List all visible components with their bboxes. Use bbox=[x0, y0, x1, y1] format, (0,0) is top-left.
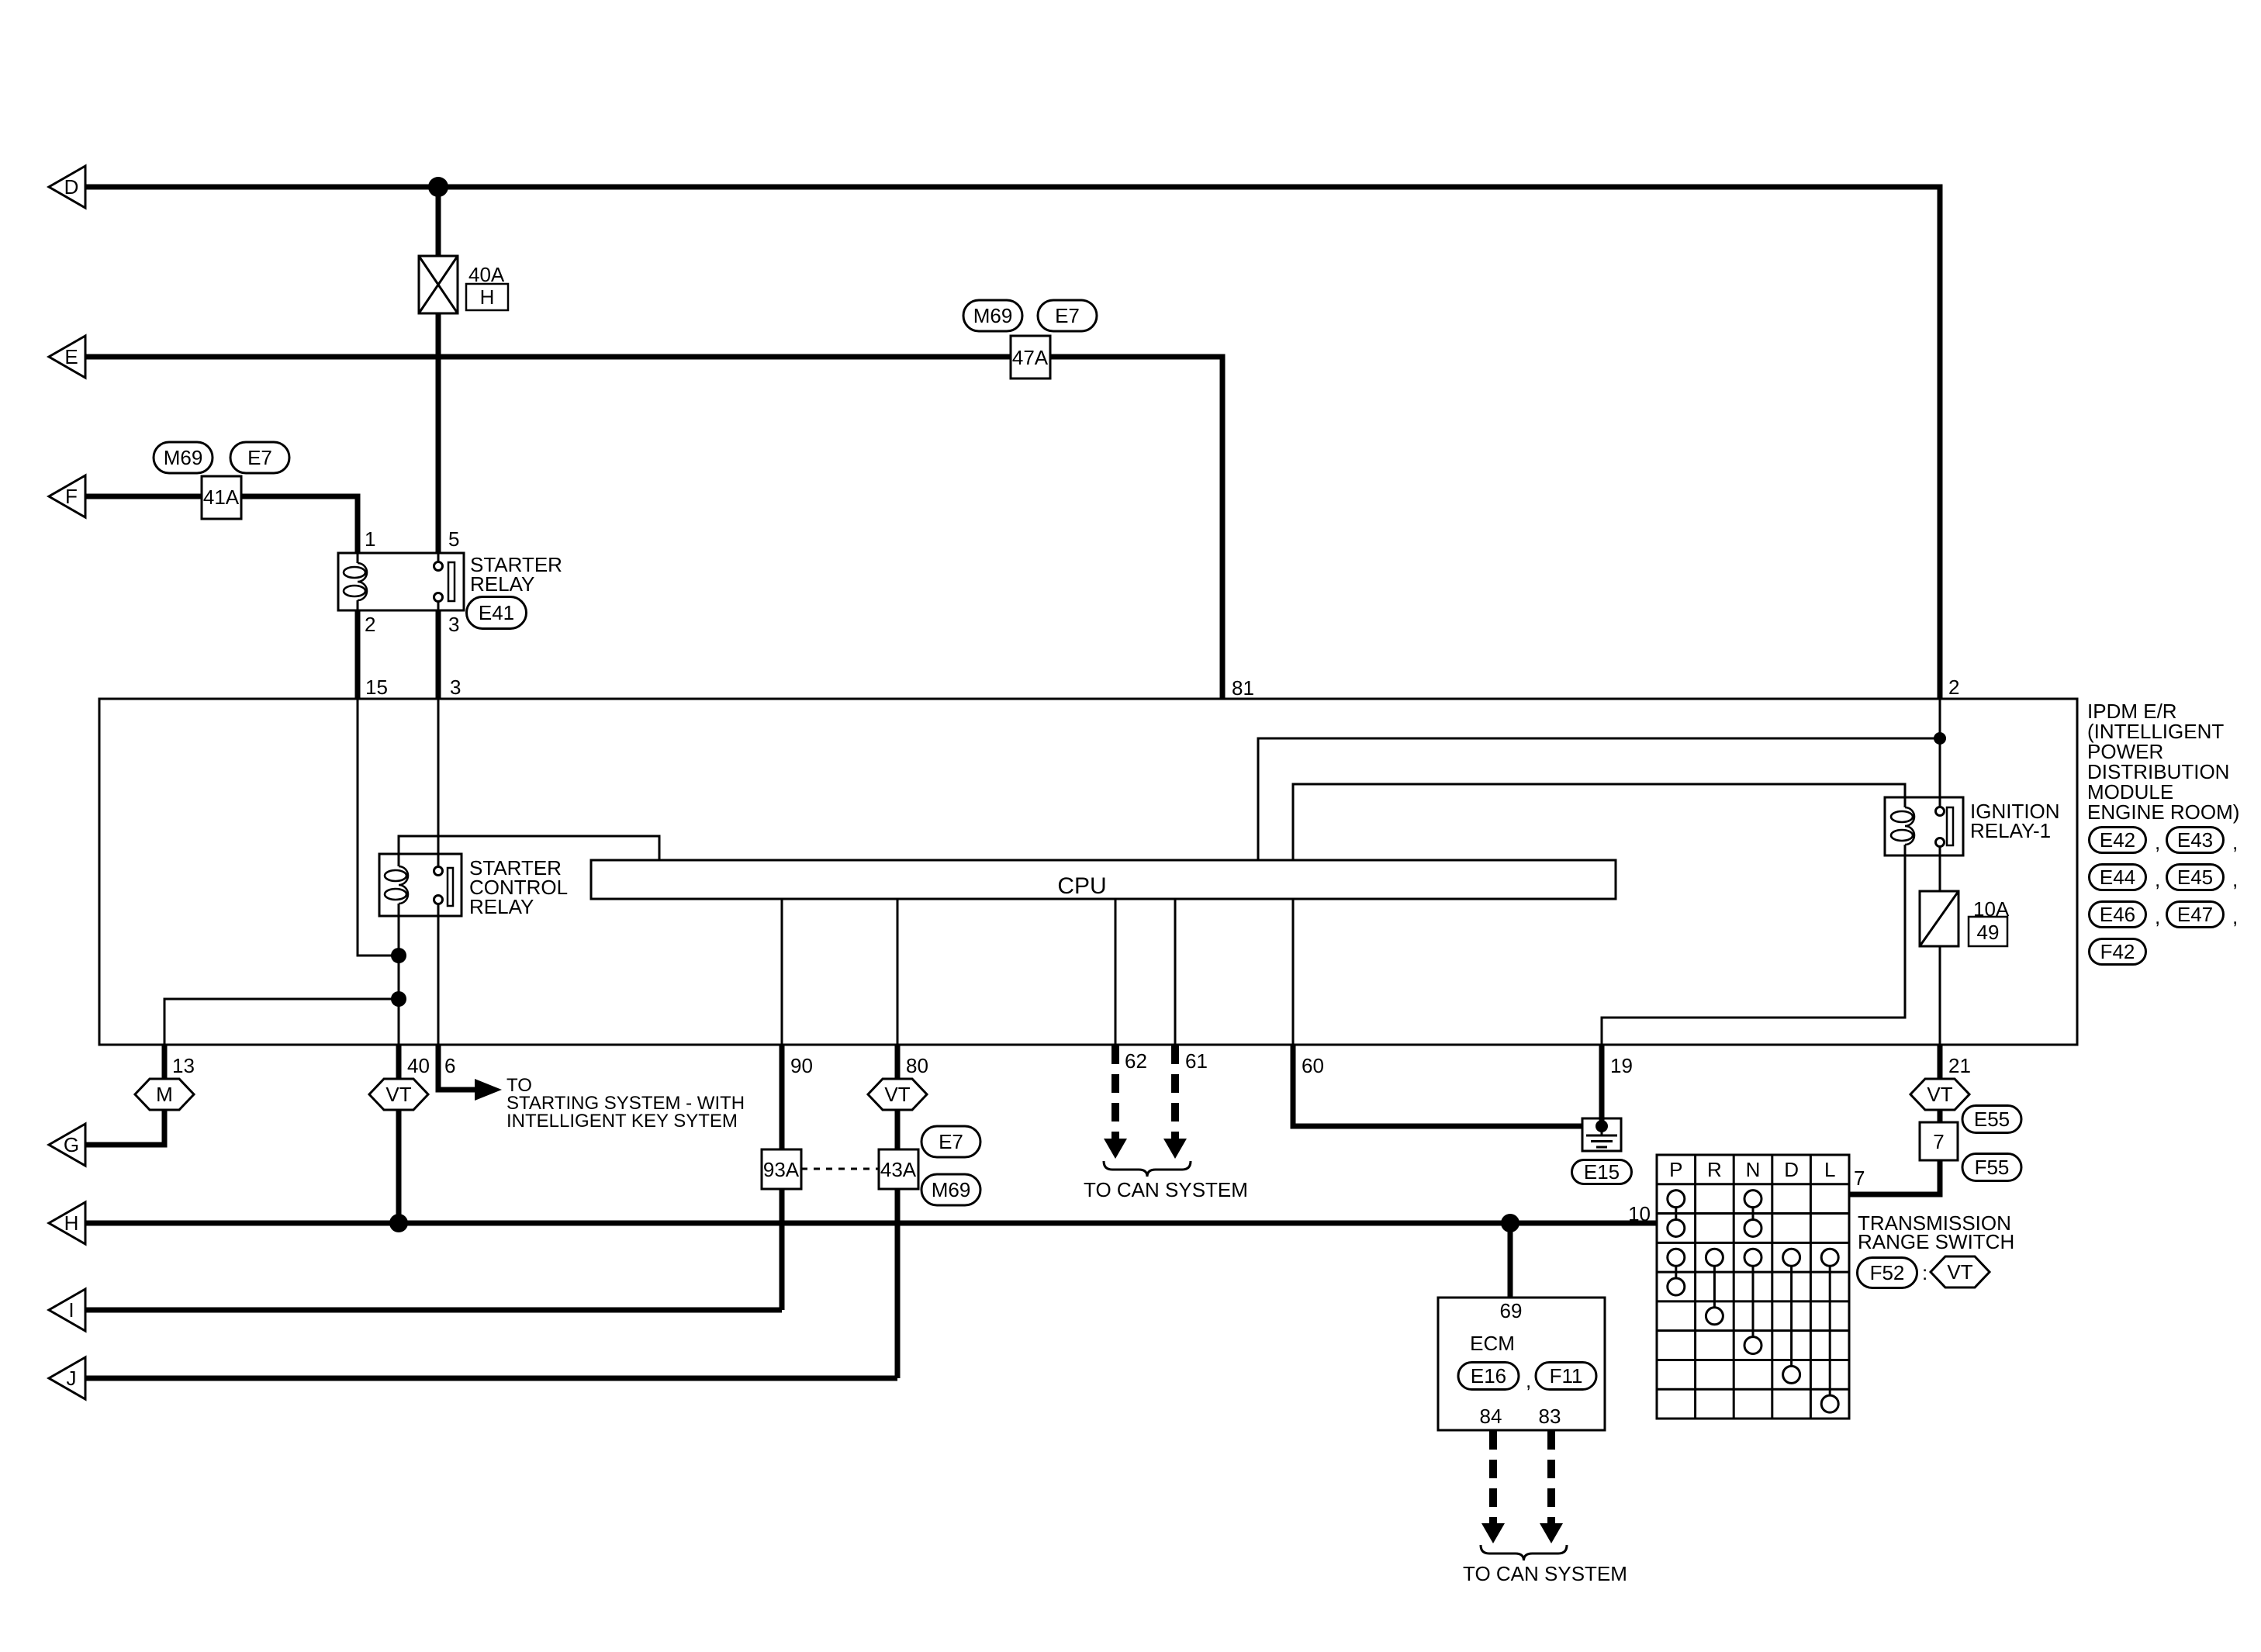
svg-text:62: 62 bbox=[1125, 1049, 1147, 1073]
svg-text:47A: 47A bbox=[1012, 346, 1049, 369]
wire: CPU to IPDM pin 80 bbox=[897, 899, 899, 1045]
svg-text:ENGINE ROOM): ENGINE ROOM) bbox=[2087, 800, 2239, 824]
svg-text:80: 80 bbox=[906, 1054, 928, 1077]
connector F52 bbox=[1858, 1258, 1917, 1288]
connector E15 bbox=[1572, 1160, 1632, 1184]
relay: IGNITION RELAY-1 box bbox=[1885, 797, 1963, 855]
connector E45 bbox=[2167, 865, 2224, 890]
connector arrow G bbox=[49, 1124, 85, 1166]
svg-text:61: 61 bbox=[1185, 1049, 1208, 1073]
svg-text:7: 7 bbox=[1933, 1130, 1944, 1153]
svg-text:84: 84 bbox=[1480, 1405, 1502, 1428]
CAN wire from ECM pin 84 bbox=[1489, 1431, 1497, 1525]
connector arrow H bbox=[49, 1202, 85, 1244]
svg-text:5: 5 bbox=[448, 527, 459, 551]
svg-text:19: 19 bbox=[1610, 1054, 1633, 1077]
wire: from line D junction down to 40A fuse and starter relay pin 5 bbox=[436, 187, 441, 553]
connector arrow I bbox=[49, 1289, 85, 1331]
connector E16 bbox=[1458, 1363, 1519, 1390]
connector F11 bbox=[1536, 1363, 1596, 1390]
range switch contacts column L bbox=[1821, 1249, 1838, 1266]
svg-text:F52: F52 bbox=[1870, 1261, 1905, 1284]
connector arrow D bbox=[49, 166, 85, 208]
svg-text:7: 7 bbox=[1854, 1166, 1865, 1190]
svg-text:F11: F11 bbox=[1550, 1364, 1583, 1388]
svg-text:3: 3 bbox=[450, 676, 461, 699]
ignition relay coil bbox=[1905, 807, 1914, 845]
svg-text:2: 2 bbox=[1948, 676, 1959, 699]
relay: STARTER CONTROL RELAY box bbox=[379, 854, 462, 916]
svg-text:,: , bbox=[1526, 1369, 1531, 1392]
svg-text:H: H bbox=[64, 1211, 79, 1235]
IPDM E/R enclosure box bbox=[99, 699, 2077, 1045]
label: fuse box 49 bbox=[1969, 917, 2007, 946]
wire: pin 6 to starting system arrow bbox=[438, 1045, 476, 1090]
svg-text:F55: F55 bbox=[1975, 1156, 2010, 1179]
svg-text:RELAY: RELAY bbox=[469, 895, 534, 918]
wire: branch from coil return to IPDM pin 13 bbox=[164, 999, 399, 1045]
svg-text:,: , bbox=[2155, 868, 2160, 891]
svg-text:43A: 43A bbox=[880, 1158, 917, 1181]
wire: pin 80 down to line J bbox=[895, 1045, 901, 1378]
connector E42 bbox=[2090, 828, 2146, 853]
fusible link 93A box bbox=[762, 1149, 801, 1189]
svg-text:M69: M69 bbox=[932, 1178, 971, 1201]
wire: IPDM pin 15 down and over to starter control relay coil node bbox=[358, 699, 399, 956]
relay: STARTER RELAY E41 box bbox=[338, 553, 464, 610]
svg-text:60: 60 bbox=[1302, 1054, 1324, 1077]
brace under CAN arrows bbox=[1104, 1161, 1191, 1177]
net symbol M on pin 13 wire bbox=[135, 1079, 194, 1110]
connector arrow E bbox=[49, 336, 85, 378]
wire: range switch pin 7 to IPDM pin 21 bbox=[1849, 1045, 1940, 1194]
wire: line H junction down to ECM pin 69 bbox=[1508, 1223, 1513, 1298]
svg-text:P: P bbox=[1669, 1158, 1682, 1181]
wire: battery line D from connector D to IPDM pin 2 bbox=[85, 187, 1940, 699]
CAN wire from pin 61 bbox=[1171, 1045, 1179, 1140]
wire: line I to connector I bbox=[85, 1308, 782, 1313]
wire: CPU to IPDM pin 61 bbox=[1174, 899, 1177, 1045]
connector arrow J bbox=[49, 1357, 85, 1399]
svg-text:E55: E55 bbox=[1974, 1108, 2010, 1131]
wire: line J to connector J bbox=[85, 1376, 897, 1381]
starter relay coil bbox=[357, 553, 359, 563]
svg-text:RELAY: RELAY bbox=[470, 572, 534, 596]
fuse 40A H (box with X) bbox=[419, 256, 458, 313]
TRANSMISSION RANGE SWITCH grid bbox=[1657, 1155, 1849, 1419]
fuse 10A 49 (box with diagonal) bbox=[1920, 891, 1958, 946]
wire: starter control relay coil bottom to pin 40 column bbox=[398, 904, 400, 1045]
label: fuse box H bbox=[466, 284, 508, 310]
range switch contacts column P bbox=[1668, 1191, 1685, 1208]
connector F42 bbox=[2090, 939, 2146, 965]
net symbol VT (range switch) bbox=[1931, 1256, 1990, 1287]
connector M69 (above 47A) bbox=[963, 300, 1022, 331]
wire: line F from connector F through 41A to starter relay pin 1 bbox=[85, 496, 358, 553]
svg-text:83: 83 bbox=[1539, 1405, 1561, 1428]
wire: pin 13 to M hexagon and connector G bbox=[162, 1045, 168, 1080]
svg-text:RELAY-1: RELAY-1 bbox=[1970, 819, 2051, 842]
connector M69 (right of 43A) bbox=[921, 1174, 980, 1205]
svg-text:CPU: CPU bbox=[1057, 873, 1106, 899]
connector E44 bbox=[2090, 865, 2146, 890]
connector arrow F bbox=[49, 475, 85, 517]
svg-text:N: N bbox=[1746, 1158, 1761, 1181]
svg-text:VT: VT bbox=[884, 1083, 910, 1106]
wire: M hexagon down to line G bbox=[85, 1109, 164, 1145]
wire: CPU to IPDM pin 60 bbox=[1292, 899, 1295, 1045]
svg-text:,: , bbox=[2155, 905, 2160, 928]
svg-text:E45: E45 bbox=[2177, 866, 2213, 889]
range switch contacts column D bbox=[1783, 1249, 1800, 1266]
range switch contacts column N bbox=[1744, 1191, 1761, 1208]
svg-text:RANGE SWITCH: RANGE SWITCH bbox=[1858, 1230, 2014, 1253]
svg-text:D: D bbox=[1784, 1158, 1799, 1181]
connector box 7 on pin 21 wire bbox=[1920, 1122, 1958, 1160]
svg-text:R: R bbox=[1707, 1158, 1722, 1181]
wire: pin 90 down to line I bbox=[780, 1045, 785, 1310]
svg-text:1: 1 bbox=[365, 527, 375, 551]
net symbol VT on pin 40 wire bbox=[369, 1079, 428, 1110]
svg-text:VT: VT bbox=[1947, 1260, 1972, 1284]
svg-text:I: I bbox=[68, 1298, 74, 1322]
svg-text:2: 2 bbox=[365, 613, 375, 636]
svg-text:93A: 93A bbox=[763, 1158, 800, 1181]
wire: IPDM pin 3 down to starter control relay contact bbox=[437, 699, 440, 867]
svg-text:E16: E16 bbox=[1471, 1364, 1506, 1388]
wire: CPU to IPDM pin 90 bbox=[781, 899, 783, 1045]
wire: starter relay pin 3 down to IPDM pin 3 bbox=[436, 610, 441, 699]
svg-text:E7: E7 bbox=[247, 446, 272, 469]
CAN wire from ECM pin 83 bbox=[1547, 1431, 1555, 1525]
svg-text:3: 3 bbox=[448, 613, 459, 636]
svg-text:41A: 41A bbox=[203, 486, 240, 509]
svg-text:INTELLIGENT KEY SYTEM: INTELLIGENT KEY SYTEM bbox=[506, 1111, 738, 1132]
svg-text:13: 13 bbox=[172, 1054, 195, 1077]
connector E7 (above 41A) bbox=[230, 442, 289, 473]
svg-text:E42: E42 bbox=[2100, 828, 2135, 852]
connector E41 bbox=[467, 597, 527, 629]
connector E7 (above 47A) bbox=[1038, 300, 1097, 331]
svg-text:J: J bbox=[67, 1367, 77, 1390]
svg-text:M69: M69 bbox=[973, 304, 1013, 327]
svg-text:21: 21 bbox=[1948, 1054, 1971, 1077]
svg-text:E15: E15 bbox=[1584, 1160, 1620, 1184]
svg-text:E46: E46 bbox=[2100, 903, 2135, 926]
svg-text:D: D bbox=[64, 175, 79, 199]
svg-text:6: 6 bbox=[444, 1054, 455, 1077]
svg-text:40A: 40A bbox=[468, 263, 505, 286]
ground symbol bbox=[1601, 1126, 1603, 1135]
svg-text:81: 81 bbox=[1232, 676, 1254, 700]
svg-text:,: , bbox=[2232, 905, 2238, 928]
svg-text:TO CAN SYSTEM: TO CAN SYSTEM bbox=[1084, 1178, 1248, 1201]
svg-text:15: 15 bbox=[365, 676, 388, 699]
brace under ECM CAN arrows bbox=[1481, 1545, 1567, 1560]
svg-text:E: E bbox=[64, 345, 78, 368]
CAN wire from pin 62 bbox=[1111, 1045, 1119, 1140]
wire: branch from pin2 feed to CPU top bbox=[1258, 738, 1940, 860]
net symbol VT on pin 80 wire bbox=[868, 1079, 927, 1110]
svg-text:49: 49 bbox=[1977, 921, 2000, 944]
svg-text:F42: F42 bbox=[2100, 940, 2135, 963]
connector E55 bbox=[1962, 1106, 2021, 1133]
svg-text:TO CAN SYSTEM: TO CAN SYSTEM bbox=[1463, 1562, 1627, 1585]
node: junction on pin 2 feed bbox=[1934, 732, 1946, 745]
connector E7 (right of 43A) bbox=[921, 1126, 980, 1157]
connector M69 (above 41A) bbox=[154, 442, 213, 473]
svg-text:90: 90 bbox=[790, 1054, 813, 1077]
dashed tie between 93A and 43A bbox=[801, 1168, 879, 1170]
ignition relay contact bbox=[1936, 807, 1945, 816]
svg-text:,: , bbox=[2232, 868, 2238, 891]
svg-text:,: , bbox=[2155, 831, 2160, 854]
wire: starter relay pin 2 down to IPDM pin 15 bbox=[355, 610, 361, 699]
wire: CPU to IPDM pin 62 bbox=[1115, 899, 1117, 1045]
svg-text:H: H bbox=[480, 285, 495, 309]
svg-text:F: F bbox=[65, 485, 78, 508]
fusible link 41A box bbox=[202, 476, 241, 519]
svg-text::: : bbox=[1922, 1261, 1927, 1284]
node: junction pin15 wire joins coil return bbox=[391, 948, 406, 963]
node: ground junction dot bbox=[1595, 1120, 1608, 1132]
starter relay contact bbox=[437, 553, 440, 562]
wire: starter control relay contact bottom to IPDM pin 6 bbox=[437, 904, 440, 1045]
svg-text:,: , bbox=[2232, 831, 2238, 854]
svg-text:ECM: ECM bbox=[1470, 1332, 1515, 1355]
svg-text:E7: E7 bbox=[939, 1130, 963, 1153]
starter control relay coil bbox=[399, 866, 408, 904]
node: junction branch to pin 13 bbox=[391, 991, 406, 1007]
arrowhead: to starting system bbox=[475, 1079, 502, 1101]
connector E46 bbox=[2090, 902, 2146, 928]
wire: starter control relay coil top to CPU top bbox=[399, 836, 659, 866]
CPU box bbox=[591, 860, 1616, 899]
fusible link 43A box bbox=[879, 1149, 918, 1189]
wire: ignition relay contact through 10A fuse to IPDM pin 21 bbox=[1939, 846, 1941, 1045]
svg-text:40: 40 bbox=[407, 1054, 430, 1077]
wire: ignition relay coil return to IPDM pin 19 bbox=[1602, 845, 1905, 1045]
svg-text:M69: M69 bbox=[164, 446, 203, 469]
svg-text:E41: E41 bbox=[479, 601, 514, 624]
wire: pin 19 to ground bbox=[1599, 1045, 1605, 1126]
connector E47 bbox=[2167, 902, 2224, 928]
svg-text:69: 69 bbox=[1500, 1299, 1523, 1322]
wire: IPDM pin 2 feed down to ignition relay contact bbox=[1939, 699, 1941, 808]
net symbol VT on pin 21 wire bbox=[1910, 1079, 1969, 1110]
ECM box bbox=[1438, 1298, 1605, 1430]
svg-text:E47: E47 bbox=[2177, 903, 2213, 926]
svg-text:E7: E7 bbox=[1055, 304, 1080, 327]
starter control relay contact bbox=[434, 867, 443, 876]
connector E43 bbox=[2167, 828, 2224, 853]
node: junction line H with pin 40 wire bbox=[389, 1214, 408, 1232]
wire: line E from connector E through fuse link 47A to IPDM pin 81 bbox=[85, 357, 1222, 699]
svg-text:L: L bbox=[1824, 1158, 1835, 1181]
wire: CPU output up and over to ignition relay coil bbox=[1293, 784, 1905, 860]
ground symbol box E15 bbox=[1582, 1118, 1621, 1151]
range switch contacts column R bbox=[1706, 1249, 1723, 1266]
node: junction on line D above fuse H bbox=[428, 177, 448, 197]
svg-text:G: G bbox=[64, 1133, 79, 1156]
connector F55 bbox=[1962, 1154, 2021, 1181]
wire: line H from connector H to transmission range switch pin 10 bbox=[85, 1221, 1657, 1226]
wire: pin 40 down to VT hexagon and line H bbox=[396, 1045, 402, 1223]
svg-text:VT: VT bbox=[385, 1083, 411, 1106]
fusible link 47A box bbox=[1011, 336, 1050, 378]
node: junction line H with ECM pin 69 wire bbox=[1501, 1214, 1519, 1232]
svg-text:E43: E43 bbox=[2177, 828, 2213, 852]
svg-text:VT: VT bbox=[1927, 1083, 1952, 1106]
svg-text:E44: E44 bbox=[2100, 866, 2135, 889]
svg-text:10: 10 bbox=[1628, 1202, 1651, 1225]
wire: pin 60 to ground bbox=[1293, 1045, 1582, 1126]
svg-text:M: M bbox=[156, 1083, 173, 1106]
